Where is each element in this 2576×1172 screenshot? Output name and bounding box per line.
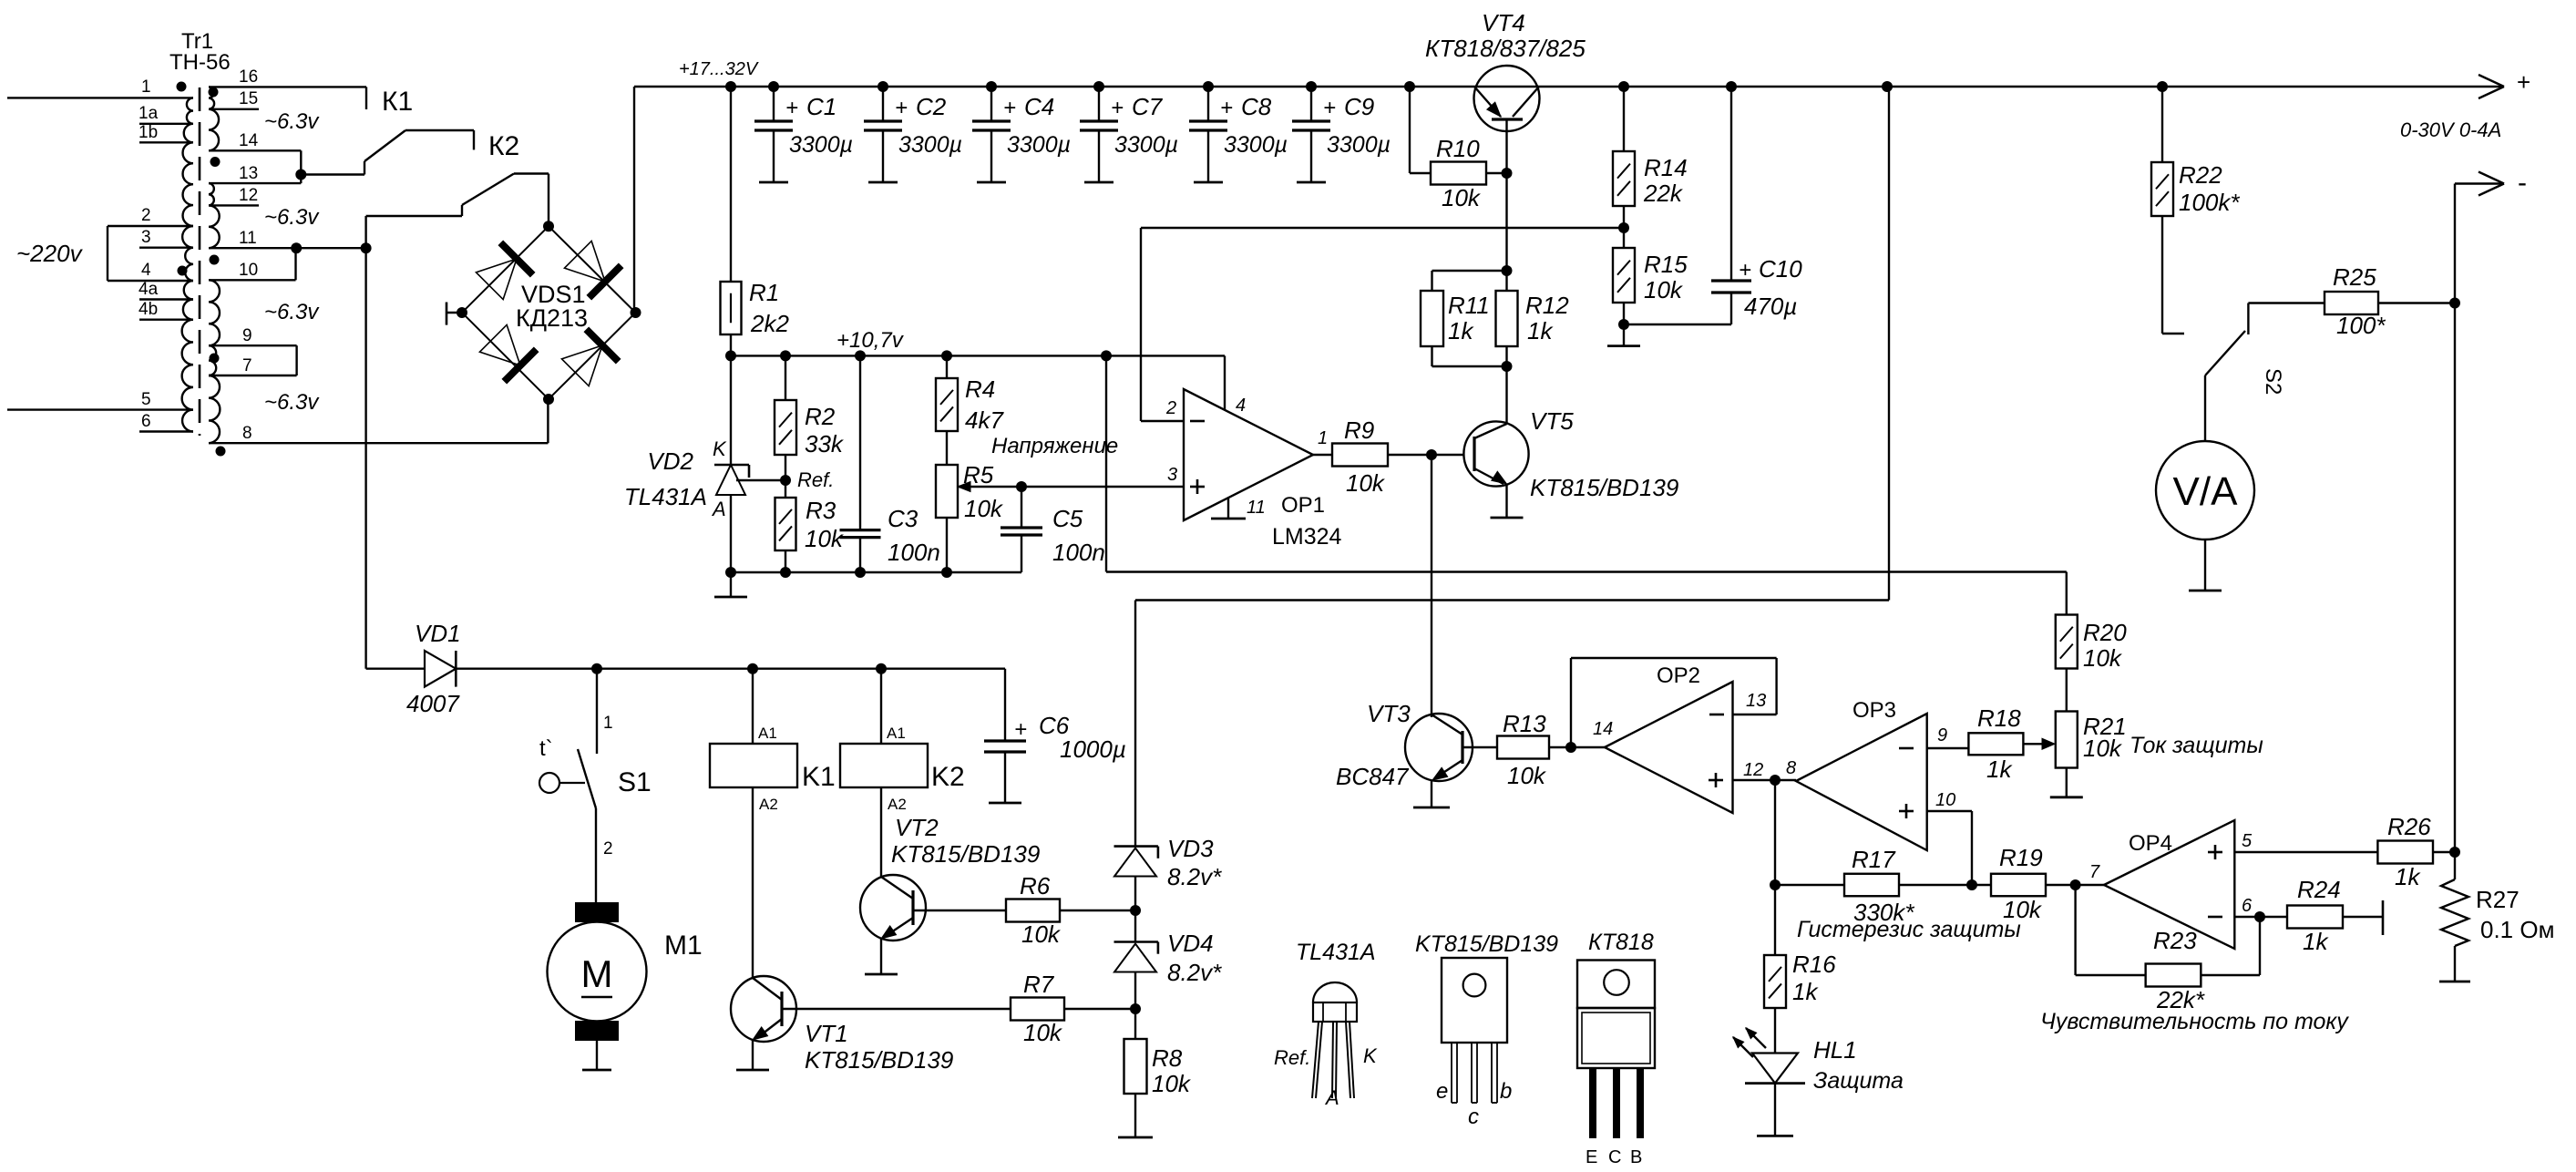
ground xyxy=(989,802,1021,805)
svg-text:~6.3v: ~6.3v xyxy=(264,109,320,134)
transformer Tr1 secondary winding 13-12-11 xyxy=(209,183,220,248)
svg-text:10k: 10k xyxy=(1442,184,1482,211)
svg-text:C1: C1 xyxy=(806,93,836,120)
resistor R4 4k7 xyxy=(946,355,948,378)
svg-text:+: + xyxy=(1014,717,1027,742)
svg-text:ТН-56: ТН-56 xyxy=(169,50,231,75)
wire output minus xyxy=(2455,182,2504,184)
wire secondary pin 15 xyxy=(209,108,259,110)
svg-text:8.2v*: 8.2v* xyxy=(1167,863,1222,890)
svg-text:HL1: HL1 xyxy=(1813,1036,1857,1064)
svg-text:C8: C8 xyxy=(1241,93,1272,120)
svg-text:~220v: ~220v xyxy=(16,240,84,267)
bridge diode top-right xyxy=(564,241,605,282)
svg-text:13: 13 xyxy=(239,164,258,183)
svg-text:R17: R17 xyxy=(1852,846,1896,873)
ground xyxy=(1491,517,1524,519)
svg-text:+: + xyxy=(785,96,798,120)
resistor R7 10k xyxy=(1011,998,1064,1021)
svg-text:R18: R18 xyxy=(1977,704,2021,732)
svg-text:A: A xyxy=(1324,1086,1339,1109)
resistor R22 100k* xyxy=(2161,87,2163,162)
svg-text:OP1: OP1 xyxy=(1281,493,1325,518)
svg-text:1000µ: 1000µ xyxy=(1060,735,1126,763)
op-amp OP1 LM324 xyxy=(1184,389,1313,520)
wire secondary pin 10 xyxy=(209,279,296,281)
resistor R8 10k xyxy=(1134,1009,1136,1039)
svg-text:10k: 10k xyxy=(2083,735,2123,762)
svg-text:10k: 10k xyxy=(964,495,1004,522)
wire VT2 base xyxy=(913,910,1006,911)
resistor R13 10k xyxy=(1497,736,1549,759)
svg-text:OP3: OP3 xyxy=(1852,698,1896,723)
svg-text:R16: R16 xyxy=(1792,951,1836,978)
svg-text:C3: C3 xyxy=(888,505,919,532)
svg-text:C5: C5 xyxy=(1052,505,1083,532)
resistor R17 330k* xyxy=(1775,884,1844,886)
wire ground bus left xyxy=(731,571,1021,573)
svg-text:10k: 10k xyxy=(1021,920,1062,948)
bridge rectifier VDS1 KD213 xyxy=(462,226,636,399)
svg-text:A1: A1 xyxy=(758,725,777,742)
wire secondary pin 14 xyxy=(209,149,301,151)
svg-text:KT815/BD139: KT815/BD139 xyxy=(805,1046,953,1074)
transformer Tr1 secondary winding 10-9-7 xyxy=(209,280,220,375)
svg-text:14: 14 xyxy=(239,131,259,150)
wire primary pin 4a xyxy=(139,298,193,300)
bridge diode bottom-left xyxy=(479,324,520,365)
svg-text:R4: R4 xyxy=(965,375,995,403)
svg-text:S2: S2 xyxy=(2261,368,2285,395)
svg-text:c: c xyxy=(1468,1105,1479,1129)
wire OP1 pin 4 supply xyxy=(1224,355,1226,410)
svg-text:Гистерезис защиты: Гистерезис защиты xyxy=(1797,917,2021,942)
svg-text:R2: R2 xyxy=(805,403,836,430)
svg-text:3300µ: 3300µ xyxy=(898,132,962,158)
svg-text:3300µ: 3300µ xyxy=(1114,132,1178,158)
capacitor C10 470u xyxy=(1730,87,1732,281)
svg-text:-: - xyxy=(2518,168,2527,198)
svg-text:R26: R26 xyxy=(2387,813,2431,840)
svg-text:A2: A2 xyxy=(759,796,778,813)
wire contact K2 to bridge top xyxy=(514,172,549,174)
switch S1 with thermal button xyxy=(596,669,598,754)
ground xyxy=(582,1069,611,1072)
svg-text:+: + xyxy=(2517,68,2530,96)
svg-text:KT815/BD139: KT815/BD139 xyxy=(891,840,1040,868)
svg-text:1k: 1k xyxy=(1448,317,1474,344)
svg-text:33k: 33k xyxy=(805,430,845,457)
svg-text:100k*: 100k* xyxy=(2179,189,2240,216)
ground xyxy=(2439,981,2470,983)
capacitor C7 3300u xyxy=(1098,87,1100,121)
transistor VT5 KT815/BD139 xyxy=(1463,421,1528,486)
svg-text:3300µ: 3300µ xyxy=(1224,132,1288,158)
svg-text:7: 7 xyxy=(2089,862,2100,882)
svg-text:R19: R19 xyxy=(1999,844,2043,871)
ground xyxy=(730,572,732,597)
wire primary pin 6 xyxy=(139,430,193,432)
resistor R2 33k xyxy=(785,355,786,400)
transistor VT3 BC847 xyxy=(1405,714,1473,781)
wire OP1 output node to VT3 collector xyxy=(1431,455,1432,717)
svg-text:R7: R7 xyxy=(1023,971,1055,998)
svg-text:3: 3 xyxy=(141,228,151,247)
jumper primary pins 2-4 xyxy=(107,226,108,281)
svg-text:+: + xyxy=(1003,96,1016,120)
svg-text:TL431A: TL431A xyxy=(624,483,707,510)
svg-text:t`: t` xyxy=(539,736,553,761)
wire raw supply to zener chain xyxy=(1888,87,1890,601)
svg-text:~6.3v: ~6.3v xyxy=(264,205,320,230)
svg-text:VT5: VT5 xyxy=(1530,407,1574,435)
svg-text:C7: C7 xyxy=(1132,93,1164,120)
svg-text:A2: A2 xyxy=(888,796,907,813)
svg-text:R9: R9 xyxy=(1344,416,1374,444)
svg-text:4: 4 xyxy=(141,261,151,280)
svg-text:R11: R11 xyxy=(1448,292,1490,319)
wire primary pin 1 xyxy=(7,97,193,98)
transistor VT1 KT815/BD139 xyxy=(731,976,796,1042)
svg-text:R13: R13 xyxy=(1503,710,1546,737)
svg-text:BC847: BC847 xyxy=(1336,763,1410,790)
capacitor C6 1000u xyxy=(1004,669,1006,741)
svg-text:4: 4 xyxy=(1236,396,1246,416)
svg-text:R25: R25 xyxy=(2333,263,2376,291)
svg-text:1k: 1k xyxy=(1986,756,2013,783)
wire primary pin 1b xyxy=(139,141,193,143)
svg-text:+10,7v: +10,7v xyxy=(836,328,905,353)
capacitor C9 3300u xyxy=(1310,87,1312,121)
svg-text:8: 8 xyxy=(242,424,252,443)
svg-text:R3: R3 xyxy=(806,497,836,524)
svg-text:M: M xyxy=(581,952,613,995)
svg-text:1k: 1k xyxy=(1792,978,1819,1005)
svg-text:10: 10 xyxy=(239,261,258,280)
svg-text:9: 9 xyxy=(1937,725,1947,745)
wire primary pin 5 xyxy=(7,408,193,410)
svg-text:100*: 100* xyxy=(2336,312,2386,339)
svg-text:3: 3 xyxy=(1167,465,1177,485)
svg-text:6: 6 xyxy=(141,412,151,431)
wire OP1 pin 2 feedback xyxy=(1141,420,1184,422)
svg-text:Чувствительность по току: Чувствительность по току xyxy=(2040,1009,2349,1034)
svg-text:TL431A: TL431A xyxy=(1296,940,1376,965)
svg-text:Ref.: Ref. xyxy=(797,468,834,491)
svg-text:VT4: VT4 xyxy=(1482,9,1525,36)
svg-text:4007: 4007 xyxy=(406,690,460,717)
svg-text:10k: 10k xyxy=(2083,644,2123,672)
svg-text:VD3: VD3 xyxy=(1167,835,1214,862)
svg-text:2: 2 xyxy=(141,206,151,225)
wire OP3 pin 10 xyxy=(1927,810,1972,812)
svg-text:~6.3v: ~6.3v xyxy=(264,300,320,324)
svg-text:e: e xyxy=(1436,1079,1448,1104)
svg-text:C9: C9 xyxy=(1344,93,1374,120)
svg-text:10k: 10k xyxy=(1346,469,1386,497)
transformer Tr1 secondary winding 16-15-14 xyxy=(209,87,219,150)
wire secondary pin 11 xyxy=(209,247,366,249)
terminal R24 to output minus xyxy=(2382,900,2385,935)
zener diode VD3 8.2v* xyxy=(1114,845,1158,848)
svg-text:Ток защиты: Ток защиты xyxy=(2130,733,2263,758)
svg-text:2: 2 xyxy=(603,839,613,858)
svg-text:A: A xyxy=(711,498,726,520)
wire secondary pin 9 xyxy=(209,344,297,346)
zener diode VD4 8.2v* xyxy=(1134,910,1136,942)
ground xyxy=(1211,518,1246,520)
svg-text:VD2: VD2 xyxy=(647,447,693,475)
ground xyxy=(1118,1136,1153,1139)
svg-text:VT1: VT1 xyxy=(805,1020,848,1047)
svg-text:9: 9 xyxy=(242,326,252,345)
svg-text:8: 8 xyxy=(1786,758,1796,778)
svg-text:7: 7 xyxy=(242,356,252,375)
relay coil K2 xyxy=(880,669,882,744)
wire OP1 pin 11 xyxy=(1227,499,1229,519)
ground xyxy=(1413,807,1450,809)
svg-text:22k: 22k xyxy=(1643,180,1684,207)
wire primary pin 3 xyxy=(139,247,193,249)
svg-text:3300µ: 3300µ xyxy=(789,132,853,158)
svg-text:A1: A1 xyxy=(887,725,906,742)
svg-text:10k: 10k xyxy=(805,525,845,552)
wire OP2 pin 12 xyxy=(1733,779,1797,781)
svg-text:Напряжение: Напряжение xyxy=(991,434,1118,458)
svg-text:12: 12 xyxy=(239,186,258,205)
relay contact K1 xyxy=(365,87,367,109)
ground xyxy=(2050,796,2083,798)
wire secondary pin 12 xyxy=(209,204,259,206)
op-amp OP3 xyxy=(1796,714,1927,850)
op-amp OP2 xyxy=(1605,682,1733,813)
resistor R16 1k xyxy=(1774,885,1776,955)
resistor R27 0.1 Ом xyxy=(2441,879,2468,946)
potentiometer R21 10k xyxy=(2056,712,2078,768)
svg-text:0-30V 0-4A: 0-30V 0-4A xyxy=(2400,118,2501,141)
svg-text:KT815/BD139: KT815/BD139 xyxy=(1530,474,1678,501)
bridge diode bottom-right xyxy=(561,345,602,386)
svg-text:B: B xyxy=(1630,1147,1642,1167)
svg-text:VD1: VD1 xyxy=(415,620,461,647)
svg-text:OP2: OP2 xyxy=(1657,663,1700,688)
svg-text:2k2: 2k2 xyxy=(750,310,789,337)
svg-text:3300µ: 3300µ xyxy=(1327,132,1391,158)
svg-text:C2: C2 xyxy=(916,93,947,120)
svg-text:R10: R10 xyxy=(1436,135,1480,162)
svg-text:C4: C4 xyxy=(1024,93,1054,120)
wire pin 11 to contact K2 and to VD1 xyxy=(364,216,366,669)
LED HL1 xyxy=(1752,1054,1798,1084)
wire primary pin 1a xyxy=(139,123,193,125)
svg-text:R6: R6 xyxy=(1020,872,1051,900)
resistor R6 10k xyxy=(1006,900,1060,922)
resistor R18 1k xyxy=(1968,733,2023,755)
wire VT3 base xyxy=(1462,746,1497,748)
svg-text:КД213: КД213 xyxy=(516,304,588,332)
svg-text:R1: R1 xyxy=(749,279,779,306)
svg-text:К2: К2 xyxy=(488,131,519,161)
ground xyxy=(2189,590,2222,592)
resistor R12 1k xyxy=(1505,271,1507,291)
svg-text:1k: 1k xyxy=(1527,317,1554,344)
svg-text:16: 16 xyxy=(239,67,258,87)
svg-text:R24: R24 xyxy=(2297,876,2341,903)
svg-text:+17...32V: +17...32V xyxy=(679,59,759,79)
svg-text:1: 1 xyxy=(603,714,613,733)
svg-text:12: 12 xyxy=(1743,760,1763,780)
transformer phasing dots xyxy=(177,82,187,92)
svg-text:100n: 100n xyxy=(888,539,940,566)
bridge diode top-left xyxy=(476,259,517,300)
resistor R25 100* xyxy=(2248,302,2325,303)
relay coil K1 xyxy=(752,669,754,744)
svg-text:VT2: VT2 xyxy=(895,814,939,841)
resistor R10 10k xyxy=(1409,87,1411,173)
op-amp OP4 xyxy=(2104,820,2234,949)
svg-text:10k: 10k xyxy=(1023,1019,1063,1046)
svg-text:10k: 10k xyxy=(1152,1070,1192,1097)
svg-text:15: 15 xyxy=(239,89,258,108)
resistor R15 10k xyxy=(1623,228,1625,248)
svg-text:R22: R22 xyxy=(2179,161,2222,189)
resistor R26 1k xyxy=(2377,841,2433,864)
svg-text:R23: R23 xyxy=(2153,927,2197,954)
svg-text:2: 2 xyxy=(1165,398,1176,418)
svg-text:4a: 4a xyxy=(139,280,159,299)
ground xyxy=(1757,1135,1793,1137)
svg-text:+: + xyxy=(1220,96,1233,120)
svg-text:R8: R8 xyxy=(1152,1044,1183,1072)
svg-text:1k: 1k xyxy=(2303,928,2329,955)
svg-text:13: 13 xyxy=(1746,691,1766,711)
potentiometer R5 10k xyxy=(936,465,958,518)
capacitor C2 3300u xyxy=(882,87,884,121)
svg-text:1a: 1a xyxy=(139,104,159,123)
wire secondary pin 16 xyxy=(209,86,366,87)
svg-text:K: K xyxy=(1363,1044,1378,1067)
resistor R1 2k2 xyxy=(730,87,732,282)
meter V/A xyxy=(2204,375,2206,441)
svg-text:OP4: OP4 xyxy=(2129,831,2172,856)
svg-text:R12: R12 xyxy=(1525,292,1569,319)
wire primary pin 2 xyxy=(108,225,193,227)
wire R18 to R21 wiper xyxy=(2023,743,2044,745)
resistor R9 10k xyxy=(1332,444,1388,467)
svg-text:КТ818/837/825: КТ818/837/825 xyxy=(1425,35,1586,62)
wire VT1 base xyxy=(782,1008,1011,1010)
svg-text:10k: 10k xyxy=(1644,276,1684,303)
wire primary pin 4b xyxy=(139,319,193,321)
svg-text:1: 1 xyxy=(141,77,151,97)
ground xyxy=(865,973,898,976)
svg-text:6: 6 xyxy=(2242,896,2253,916)
wire VT4 base node xyxy=(1505,173,1507,271)
svg-text:C: C xyxy=(1608,1147,1621,1167)
wire R5 wiper to OP1 pin 3 xyxy=(1016,481,1027,492)
svg-text:1b: 1b xyxy=(139,123,158,142)
svg-text:R15: R15 xyxy=(1644,251,1688,278)
wire OP4 pin 6 xyxy=(2234,916,2287,918)
resistor R23 22k* xyxy=(2074,885,2076,975)
wire OP3 pin 9 xyxy=(1927,747,1969,749)
motor M1 xyxy=(575,902,619,922)
transformer Tr1 primary winding xyxy=(182,98,193,431)
svg-text:R5: R5 xyxy=(963,461,994,488)
svg-text:+: + xyxy=(895,96,908,120)
svg-text:10k: 10k xyxy=(1507,762,1547,789)
svg-text:E: E xyxy=(1586,1147,1597,1167)
svg-text:VT3: VT3 xyxy=(1367,700,1411,727)
resistor R24 1k xyxy=(2287,906,2343,929)
svg-text:+: + xyxy=(1111,96,1124,120)
svg-text:4k7: 4k7 xyxy=(965,406,1004,434)
svg-text:11: 11 xyxy=(1247,498,1266,518)
ground xyxy=(736,1069,769,1072)
svg-text:14: 14 xyxy=(1593,719,1613,739)
terminal bridge negative output xyxy=(446,312,462,314)
wire OP1 output pin 1 xyxy=(1313,454,1332,456)
svg-text:K2: K2 xyxy=(931,762,965,792)
wire OP2 output pin 14 xyxy=(1565,742,1576,753)
svg-text:470µ: 470µ xyxy=(1744,293,1797,320)
svg-text:LM324: LM324 xyxy=(1272,524,1342,550)
capacitor C5 100n xyxy=(1021,487,1022,528)
capacitor C4 3300u xyxy=(990,87,992,121)
wire +10,7v bus xyxy=(731,355,1225,356)
svg-text:+: + xyxy=(1739,258,1751,283)
resistor R14 22k xyxy=(1623,87,1625,151)
svg-text:K1: K1 xyxy=(802,762,836,792)
svg-text:3300µ: 3300µ xyxy=(1007,132,1071,158)
svg-text:+: + xyxy=(1323,96,1336,120)
resistor R19 10k xyxy=(1972,884,1991,886)
capacitor C1 3300u xyxy=(773,87,775,121)
transistor VT2 KT815/BD139 xyxy=(860,875,926,941)
ground xyxy=(1623,324,1625,346)
resistor R20 10k xyxy=(2056,615,2078,669)
resistor R3 10k xyxy=(785,480,786,498)
svg-text:Защита: Защита xyxy=(1813,1068,1904,1094)
capacitor C8 3300u xyxy=(1207,87,1209,121)
transformer Tr1 secondary winding 8 xyxy=(209,375,220,443)
svg-text:100n: 100n xyxy=(1052,539,1105,566)
svg-text:1k: 1k xyxy=(2395,863,2421,890)
diode VD1 4007 xyxy=(366,668,425,670)
svg-text:VD4: VD4 xyxy=(1167,930,1214,957)
svg-text:R20: R20 xyxy=(2083,619,2127,646)
svg-text:4b: 4b xyxy=(139,300,158,319)
svg-text:1: 1 xyxy=(1318,428,1328,448)
wire OP2 pin 13 feedback xyxy=(1733,714,1777,715)
switch S2 xyxy=(2205,331,2245,375)
svg-text:KT815/BD139: KT815/BD139 xyxy=(1415,931,1558,957)
wire contact K1 to contact K2 xyxy=(405,129,474,131)
svg-text:M1: M1 xyxy=(664,930,703,961)
relay contact K2 xyxy=(473,130,475,149)
wire primary pin 4 xyxy=(108,280,193,282)
wire R9 to VT5 base xyxy=(1388,454,1464,456)
svg-text:5: 5 xyxy=(2242,831,2253,851)
wire supply bus to R20 xyxy=(1105,355,1107,571)
wire OP2 pin12 to R17 node xyxy=(1774,780,1776,885)
svg-text:10k: 10k xyxy=(2003,896,2043,923)
diode VD2 TL431A xyxy=(730,355,732,465)
svg-text:C10: C10 xyxy=(1759,255,1802,283)
wire secondary pin 8 to bridge xyxy=(209,442,548,444)
transistor VT4 KT818/837/825 xyxy=(1474,66,1540,131)
svg-text:0.1 Ом: 0.1 Ом xyxy=(2480,916,2554,943)
